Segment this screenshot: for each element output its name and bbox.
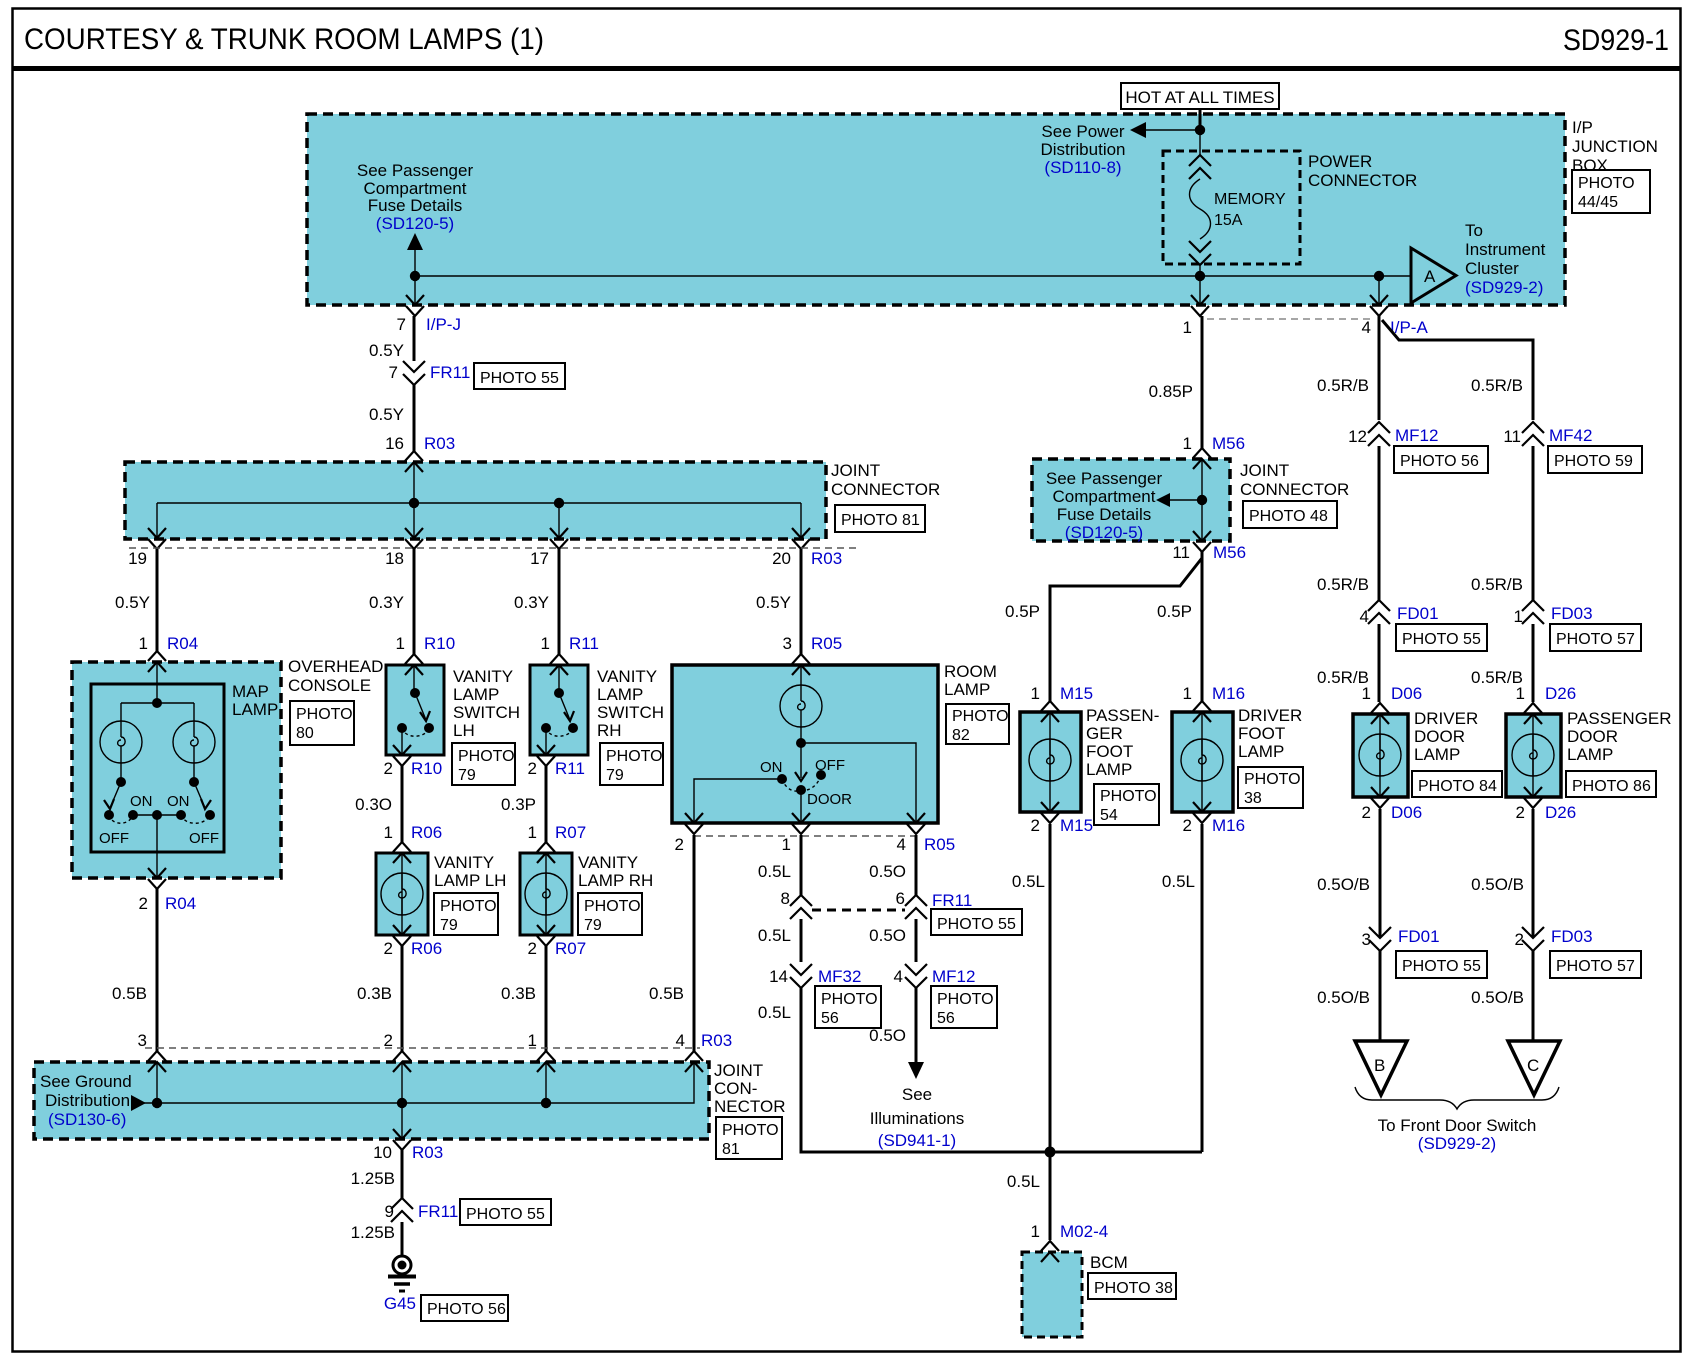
svg-text:SWITCH: SWITCH xyxy=(453,703,520,722)
svg-text:8: 8 xyxy=(781,889,790,908)
svg-text:82: 82 xyxy=(952,727,970,744)
svg-text:ON: ON xyxy=(167,793,190,810)
svg-text:0.5O: 0.5O xyxy=(869,1026,906,1045)
svg-text:80: 80 xyxy=(296,725,314,742)
svg-text:19: 19 xyxy=(128,549,147,568)
svg-text:0.5L: 0.5L xyxy=(1012,872,1045,891)
svg-text:0.5R/B: 0.5R/B xyxy=(1471,575,1523,594)
svg-text:1: 1 xyxy=(1031,684,1040,703)
svg-text:I/P-J: I/P-J xyxy=(426,315,461,334)
svg-text:MF32: MF32 xyxy=(818,967,861,986)
svg-text:PHOTO 55: PHOTO 55 xyxy=(1402,631,1481,648)
svg-text:DRIVER: DRIVER xyxy=(1414,709,1478,728)
svg-text:LAMP: LAMP xyxy=(944,680,990,699)
svg-text:PHOTO: PHOTO xyxy=(937,991,994,1008)
svg-text:PHOTO: PHOTO xyxy=(440,898,497,915)
svg-text:0.5L: 0.5L xyxy=(1007,1172,1040,1191)
svg-text:PHOTO: PHOTO xyxy=(458,748,515,765)
svg-text:See Passenger: See Passenger xyxy=(357,161,474,180)
svg-text:4: 4 xyxy=(1362,318,1371,337)
svg-text:LAMP: LAMP xyxy=(232,700,278,719)
svg-text:(SD941-1): (SD941-1) xyxy=(878,1131,956,1150)
svg-text:1.25B: 1.25B xyxy=(351,1169,395,1188)
svg-text:PHOTO 55: PHOTO 55 xyxy=(937,916,1016,933)
svg-text:1: 1 xyxy=(782,835,791,854)
svg-text:G45: G45 xyxy=(384,1294,416,1313)
svg-text:JOINT: JOINT xyxy=(831,461,880,480)
svg-text:CONSOLE: CONSOLE xyxy=(288,676,371,695)
svg-text:1.25B: 1.25B xyxy=(351,1223,395,1242)
svg-text:OFF: OFF xyxy=(99,830,129,847)
svg-text:1: 1 xyxy=(396,634,405,653)
svg-text:2: 2 xyxy=(1362,803,1371,822)
svg-text:2: 2 xyxy=(528,759,537,778)
svg-text:B: B xyxy=(1374,1056,1385,1075)
svg-text:PHOTO 84: PHOTO 84 xyxy=(1418,778,1497,795)
svg-text:R11: R11 xyxy=(555,759,585,778)
svg-text:0.3O: 0.3O xyxy=(355,795,392,814)
svg-text:38: 38 xyxy=(1244,790,1262,807)
svg-text:0.3P: 0.3P xyxy=(501,795,536,814)
svg-text:MAP: MAP xyxy=(232,682,269,701)
svg-text:1: 1 xyxy=(528,1031,537,1050)
svg-text:FOOT: FOOT xyxy=(1086,742,1133,761)
svg-text:R05: R05 xyxy=(811,634,842,653)
svg-text:0.5O/B: 0.5O/B xyxy=(1471,875,1524,894)
svg-text:0.5O: 0.5O xyxy=(869,862,906,881)
svg-text:PASSENGER: PASSENGER xyxy=(1567,709,1672,728)
svg-text:11: 11 xyxy=(1172,543,1190,562)
svg-text:M16: M16 xyxy=(1212,816,1245,835)
svg-text:FR11: FR11 xyxy=(932,891,972,910)
svg-text:4: 4 xyxy=(894,967,903,986)
svg-text:56: 56 xyxy=(821,1010,839,1027)
svg-text:2: 2 xyxy=(384,1031,393,1050)
svg-text:GER: GER xyxy=(1086,724,1123,743)
svg-text:12: 12 xyxy=(1348,427,1367,446)
svg-text:Compartment: Compartment xyxy=(1053,487,1156,506)
svg-text:0.5P: 0.5P xyxy=(1005,602,1040,621)
svg-text:R06: R06 xyxy=(411,939,442,958)
svg-text:LAMP: LAMP xyxy=(1414,745,1460,764)
svg-text:R11: R11 xyxy=(569,634,599,653)
svg-text:1: 1 xyxy=(384,823,393,842)
svg-text:0.5P: 0.5P xyxy=(1157,602,1192,621)
svg-text:PHOTO 86: PHOTO 86 xyxy=(1572,778,1651,795)
svg-text:Instrument: Instrument xyxy=(1465,240,1546,259)
svg-text:R07: R07 xyxy=(555,823,586,842)
svg-text:JOINT: JOINT xyxy=(714,1061,763,1080)
svg-text:0.5Y: 0.5Y xyxy=(369,341,404,360)
svg-text:OVERHEAD: OVERHEAD xyxy=(288,657,383,676)
svg-text:2: 2 xyxy=(1515,930,1524,949)
svg-text:1: 1 xyxy=(1516,684,1525,703)
svg-text:0.5Y: 0.5Y xyxy=(115,593,150,612)
svg-text:MF12: MF12 xyxy=(1395,426,1438,445)
svg-text:PHOTO 56: PHOTO 56 xyxy=(427,1301,506,1318)
svg-text:79: 79 xyxy=(606,767,624,784)
svg-text:2: 2 xyxy=(1516,803,1525,822)
svg-text:1: 1 xyxy=(541,634,550,653)
svg-text:PHOTO 48: PHOTO 48 xyxy=(1249,508,1328,525)
svg-text:4: 4 xyxy=(676,1031,685,1050)
svg-text:11: 11 xyxy=(1503,427,1521,446)
svg-text:3: 3 xyxy=(138,1031,147,1050)
svg-text:ROOM: ROOM xyxy=(944,662,997,681)
svg-text:I/P: I/P xyxy=(1572,118,1593,137)
svg-text:0.3Y: 0.3Y xyxy=(514,593,549,612)
svg-text:(SD130-6): (SD130-6) xyxy=(48,1110,126,1129)
svg-text:2: 2 xyxy=(384,939,393,958)
svg-text:PHOTO: PHOTO xyxy=(1100,788,1157,805)
svg-text:POWER: POWER xyxy=(1308,152,1372,171)
svg-text:MF12: MF12 xyxy=(932,967,975,986)
svg-text:1: 1 xyxy=(1183,434,1192,453)
svg-text:JOINT: JOINT xyxy=(1240,461,1289,480)
svg-text:79: 79 xyxy=(458,767,476,784)
svg-text:R05: R05 xyxy=(924,835,955,854)
svg-text:CONNECTOR: CONNECTOR xyxy=(831,480,940,499)
svg-text:0.5O/B: 0.5O/B xyxy=(1317,875,1370,894)
svg-text:15A: 15A xyxy=(1214,212,1243,229)
svg-text:R07: R07 xyxy=(555,939,586,958)
svg-text:7: 7 xyxy=(389,363,398,382)
svg-text:0.3Y: 0.3Y xyxy=(369,593,404,612)
svg-text:1: 1 xyxy=(1362,684,1371,703)
svg-text:1: 1 xyxy=(1183,318,1192,337)
svg-text:FR11: FR11 xyxy=(418,1202,458,1221)
svg-text:M56: M56 xyxy=(1213,543,1246,562)
svg-text:LAMP LH: LAMP LH xyxy=(434,871,506,890)
svg-text:54: 54 xyxy=(1100,807,1118,824)
svg-text:0.5R/B: 0.5R/B xyxy=(1317,376,1369,395)
svg-text:LAMP: LAMP xyxy=(1567,745,1613,764)
svg-text:0.5O/B: 0.5O/B xyxy=(1317,988,1370,1007)
svg-text:1: 1 xyxy=(528,823,537,842)
svg-text:D26: D26 xyxy=(1545,684,1576,703)
svg-text:SWITCH: SWITCH xyxy=(597,703,664,722)
svg-text:Distribution: Distribution xyxy=(45,1091,130,1110)
svg-text:R06: R06 xyxy=(411,823,442,842)
svg-text:56: 56 xyxy=(937,1010,955,1027)
svg-text:0.3B: 0.3B xyxy=(501,984,536,1003)
svg-text:VANITY: VANITY xyxy=(434,853,494,872)
svg-text:(SD110-8): (SD110-8) xyxy=(1044,158,1121,177)
svg-text:PHOTO 55: PHOTO 55 xyxy=(1402,958,1481,975)
svg-text:4: 4 xyxy=(1360,607,1369,626)
svg-text:20: 20 xyxy=(772,549,791,568)
svg-text:0.5R/B: 0.5R/B xyxy=(1317,575,1369,594)
svg-text:2: 2 xyxy=(1183,816,1192,835)
svg-text:R10: R10 xyxy=(424,634,455,653)
svg-text:LAMP: LAMP xyxy=(597,685,643,704)
svg-text:ON: ON xyxy=(760,759,783,776)
svg-text:PHOTO 57: PHOTO 57 xyxy=(1556,631,1635,648)
svg-text:DOOR: DOOR xyxy=(807,791,852,808)
svg-text:D06: D06 xyxy=(1391,803,1422,822)
svg-text:2: 2 xyxy=(139,894,148,913)
svg-text:2: 2 xyxy=(384,759,393,778)
svg-text:6: 6 xyxy=(896,889,905,908)
svg-text:0.5L: 0.5L xyxy=(1162,872,1195,891)
svg-text:PHOTO: PHOTO xyxy=(584,898,641,915)
svg-text:D06: D06 xyxy=(1391,684,1422,703)
svg-text:44/45: 44/45 xyxy=(1578,194,1618,211)
svg-text:DOOR: DOOR xyxy=(1414,727,1465,746)
svg-text:PHOTO 55: PHOTO 55 xyxy=(466,1206,545,1223)
svg-text:0.5Y: 0.5Y xyxy=(369,405,404,424)
svg-text:R03: R03 xyxy=(701,1031,732,1050)
svg-text:PHOTO: PHOTO xyxy=(1244,771,1301,788)
svg-text:R10: R10 xyxy=(411,759,442,778)
svg-text:PHOTO: PHOTO xyxy=(952,708,1009,725)
svg-text:Fuse Details: Fuse Details xyxy=(1057,505,1151,524)
svg-text:JUNCTION: JUNCTION xyxy=(1572,137,1658,156)
svg-text:(SD929-2): (SD929-2) xyxy=(1418,1134,1496,1153)
svg-text:17: 17 xyxy=(530,549,549,568)
svg-text:NECTOR: NECTOR xyxy=(714,1097,785,1116)
svg-text:See Ground: See Ground xyxy=(40,1072,132,1091)
svg-text:FD01: FD01 xyxy=(1397,604,1439,623)
svg-text:CONNECTOR: CONNECTOR xyxy=(1308,171,1417,190)
svg-text:R04: R04 xyxy=(167,634,198,653)
svg-text:1: 1 xyxy=(1514,607,1523,626)
svg-text:PHOTO: PHOTO xyxy=(821,991,878,1008)
svg-text:See Power: See Power xyxy=(1041,122,1124,141)
svg-text:RH: RH xyxy=(597,721,622,740)
svg-text:0.5L: 0.5L xyxy=(758,926,791,945)
svg-text:16: 16 xyxy=(385,434,404,453)
svg-text:10: 10 xyxy=(373,1143,392,1162)
svg-text:1: 1 xyxy=(1031,1222,1040,1241)
svg-text:PHOTO 38: PHOTO 38 xyxy=(1094,1280,1173,1297)
svg-text:81: 81 xyxy=(722,1141,740,1158)
svg-text:M15: M15 xyxy=(1060,816,1093,835)
svg-text:3: 3 xyxy=(783,634,792,653)
svg-text:Cluster: Cluster xyxy=(1465,259,1519,278)
svg-text:M56: M56 xyxy=(1212,434,1245,453)
svg-text:2: 2 xyxy=(675,835,684,854)
svg-text:LAMP: LAMP xyxy=(1238,742,1284,761)
svg-text:(SD120-5): (SD120-5) xyxy=(1065,523,1143,542)
svg-text:CON-: CON- xyxy=(714,1079,757,1098)
svg-text:2: 2 xyxy=(528,939,537,958)
svg-text:PHOTO 55: PHOTO 55 xyxy=(480,370,559,387)
svg-text:To: To xyxy=(1465,221,1483,240)
svg-text:Illuminations: Illuminations xyxy=(870,1109,965,1128)
svg-text:M15: M15 xyxy=(1060,684,1093,703)
svg-text:(SD929-2): (SD929-2) xyxy=(1465,278,1543,297)
svg-text:0.5L: 0.5L xyxy=(758,862,791,881)
svg-text:CONNECTOR: CONNECTOR xyxy=(1240,480,1349,499)
svg-text:VANITY: VANITY xyxy=(597,667,657,686)
svg-text:0.3B: 0.3B xyxy=(357,984,392,1003)
svg-text:LAMP: LAMP xyxy=(1086,760,1132,779)
svg-text:SD929-1: SD929-1 xyxy=(1563,24,1669,57)
svg-text:OFF: OFF xyxy=(815,757,845,774)
svg-text:1: 1 xyxy=(139,634,148,653)
svg-text:FD03: FD03 xyxy=(1551,927,1593,946)
svg-text:See Passenger: See Passenger xyxy=(1046,469,1163,488)
svg-text:Distribution: Distribution xyxy=(1040,140,1125,159)
svg-text:0.5L: 0.5L xyxy=(758,1003,791,1022)
svg-text:COURTESY & TRUNK ROOM LAMPS (1: COURTESY & TRUNK ROOM LAMPS (1) xyxy=(24,23,544,56)
svg-text:PHOTO 57: PHOTO 57 xyxy=(1556,958,1635,975)
svg-text:LAMP RH: LAMP RH xyxy=(578,871,653,890)
svg-text:VANITY: VANITY xyxy=(578,853,638,872)
svg-text:To Front Door Switch: To Front Door Switch xyxy=(1378,1116,1537,1135)
svg-text:3: 3 xyxy=(1362,930,1371,949)
svg-text:PASSEN-: PASSEN- xyxy=(1086,706,1159,725)
svg-text:1: 1 xyxy=(1183,684,1192,703)
svg-text:PHOTO 56: PHOTO 56 xyxy=(1400,453,1479,470)
svg-text:D26: D26 xyxy=(1545,803,1576,822)
svg-text:FD03: FD03 xyxy=(1551,604,1593,623)
svg-text:PHOTO: PHOTO xyxy=(606,748,663,765)
svg-text:ON: ON xyxy=(130,793,153,810)
svg-text:PHOTO: PHOTO xyxy=(296,706,353,723)
svg-text:0.5R/B: 0.5R/B xyxy=(1471,376,1523,395)
svg-text:0.5Y: 0.5Y xyxy=(756,593,791,612)
svg-text:79: 79 xyxy=(440,917,458,934)
svg-text:FR11: FR11 xyxy=(430,363,470,382)
svg-text:0.85P: 0.85P xyxy=(1149,382,1193,401)
svg-text:LH: LH xyxy=(453,721,475,740)
svg-text:DRIVER: DRIVER xyxy=(1238,706,1302,725)
svg-text:FD01: FD01 xyxy=(1398,927,1440,946)
svg-text:M16: M16 xyxy=(1212,684,1245,703)
svg-text:A: A xyxy=(1424,267,1436,286)
svg-text:VANITY: VANITY xyxy=(453,667,513,686)
svg-text:0.5B: 0.5B xyxy=(112,984,147,1003)
svg-text:See: See xyxy=(902,1085,932,1104)
svg-text:R04: R04 xyxy=(165,894,196,913)
svg-text:M02-4: M02-4 xyxy=(1060,1222,1108,1241)
svg-text:PHOTO 59: PHOTO 59 xyxy=(1554,453,1633,470)
svg-text:PHOTO: PHOTO xyxy=(1578,175,1635,192)
svg-text:(SD120-5): (SD120-5) xyxy=(376,214,454,233)
svg-text:0.5O: 0.5O xyxy=(869,926,906,945)
svg-text:OFF: OFF xyxy=(189,830,219,847)
svg-text:HOT AT ALL TIMES: HOT AT ALL TIMES xyxy=(1125,88,1274,107)
svg-text:18: 18 xyxy=(385,549,404,568)
svg-text:0.5O/B: 0.5O/B xyxy=(1471,988,1524,1007)
svg-text:79: 79 xyxy=(584,917,602,934)
svg-text:C: C xyxy=(1527,1056,1539,1075)
svg-text:R03: R03 xyxy=(811,549,842,568)
svg-text:FOOT: FOOT xyxy=(1238,724,1285,743)
svg-text:7: 7 xyxy=(397,315,406,334)
svg-text:LAMP: LAMP xyxy=(453,685,499,704)
svg-text:4: 4 xyxy=(897,835,906,854)
svg-text:R03: R03 xyxy=(424,434,455,453)
svg-text:9: 9 xyxy=(385,1202,394,1221)
svg-text:2: 2 xyxy=(1031,816,1040,835)
svg-text:Fuse Details: Fuse Details xyxy=(368,196,462,215)
svg-text:R03: R03 xyxy=(412,1143,443,1162)
svg-text:14: 14 xyxy=(769,967,788,986)
svg-text:MEMORY: MEMORY xyxy=(1214,191,1286,208)
svg-text:PHOTO: PHOTO xyxy=(722,1122,779,1139)
svg-text:MF42: MF42 xyxy=(1549,426,1592,445)
svg-text:0.5B: 0.5B xyxy=(649,984,684,1003)
svg-text:DOOR: DOOR xyxy=(1567,727,1618,746)
svg-text:PHOTO 81: PHOTO 81 xyxy=(841,512,920,529)
svg-text:BCM: BCM xyxy=(1090,1253,1128,1272)
